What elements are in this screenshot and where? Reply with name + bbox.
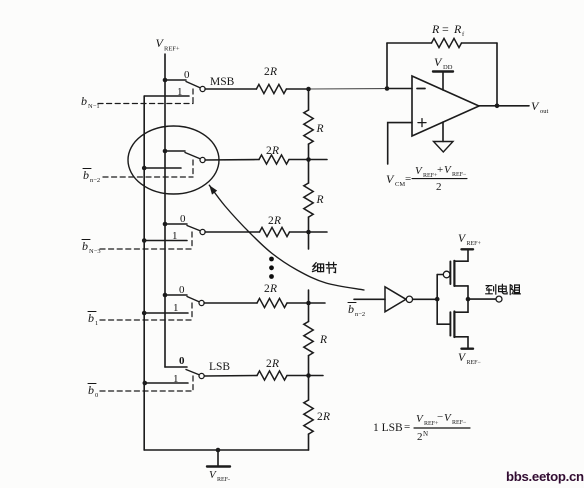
switch S4 MSB <box>144 78 205 96</box>
ground VREF- symbol <box>207 450 230 467</box>
svg-text:R: R <box>316 194 324 206</box>
ladder vertical R between node4-node5 <box>308 303 310 322</box>
junction opamp output <box>495 104 500 109</box>
wire LSB stub <box>309 375 324 377</box>
svg-text:REF-: REF- <box>217 477 230 483</box>
svg-text:R: R <box>271 358 279 370</box>
junction cmos output <box>466 297 471 302</box>
svg-text:b: b <box>83 168 89 182</box>
svg-text:1: 1 <box>177 86 183 98</box>
svg-text:V: V <box>416 413 424 425</box>
svg-text:V: V <box>209 469 217 481</box>
svg-text:REF−: REF− <box>452 420 467 426</box>
svg-text:2: 2 <box>417 431 423 443</box>
ladder vertical R between node1-node2 <box>308 89 310 110</box>
wire cmos output <box>468 298 496 300</box>
resistor 2R (row2) <box>259 155 289 164</box>
resistor 2R (MSB) <box>256 84 286 93</box>
wire LSB to ladder <box>287 375 309 377</box>
switch S1 <box>142 293 204 316</box>
wire dashed control b(N-3) <box>100 232 192 249</box>
wire opamp plus input <box>388 123 412 164</box>
svg-text:N−3: N−3 <box>89 248 101 255</box>
svg-text:R: R <box>269 66 277 78</box>
node VCM formula <box>386 164 467 193</box>
wire row3 stub <box>309 231 328 233</box>
junction opamp minus input <box>385 86 390 91</box>
wire row2 stub <box>309 159 328 161</box>
switch S3 (circled detail) <box>142 149 205 171</box>
svg-text:out: out <box>540 108 549 115</box>
svg-text:n−2: n−2 <box>355 311 365 318</box>
resistor 2R (LSB) <box>257 371 287 380</box>
svg-text:R: R <box>273 215 281 227</box>
svg-text:n−2: n−2 <box>90 177 100 184</box>
svg-text:0: 0 <box>95 392 98 399</box>
label to-resistor (dao dian zu) <box>486 284 521 294</box>
svg-text:V: V <box>415 165 423 177</box>
resistor R=Rf feedback <box>432 38 462 47</box>
inverter X1 <box>385 287 413 312</box>
ellipsis dots <box>269 257 274 279</box>
svg-text:V: V <box>531 99 540 113</box>
svg-text:1: 1 <box>173 302 179 314</box>
node Vout label <box>531 99 549 115</box>
transistor M1 PMOS <box>437 249 468 299</box>
node b1bar label <box>88 311 98 327</box>
svg-text:REF−: REF− <box>467 360 482 366</box>
wire feedback left vertical <box>386 43 388 89</box>
svg-text:b: b <box>88 383 94 397</box>
svg-text:1: 1 <box>173 373 179 385</box>
svg-text:b: b <box>82 239 88 253</box>
svg-text:0: 0 <box>180 213 186 225</box>
node b(n-2)bar label <box>83 168 100 184</box>
wire dashed control b(n-2) <box>103 160 193 177</box>
transistor M2 NMOS <box>437 299 468 349</box>
wire left rail (to VREF-) <box>143 96 145 450</box>
svg-text:+: + <box>437 164 443 176</box>
wire dashed control b0 <box>100 376 193 391</box>
power VREF+ (pmos) <box>462 248 474 250</box>
svg-text:V: V <box>444 164 452 176</box>
wire MSB node to opamp <box>286 88 308 90</box>
svg-text:REF+: REF+ <box>467 241 482 247</box>
wire row3 to 2R <box>205 231 260 233</box>
junction bottom rail <box>216 448 221 453</box>
node b(N-3)bar label <box>82 239 101 255</box>
svg-text:0: 0 <box>179 355 185 367</box>
wire ladder above node4 <box>308 290 310 303</box>
power VREF- (nmos) <box>462 348 474 350</box>
svg-text:R: R <box>431 22 440 36</box>
svg-text:2: 2 <box>436 181 442 193</box>
wire VREF+ vertical rail <box>164 54 166 367</box>
svg-text:REF+: REF+ <box>164 46 180 53</box>
svg-text:1: 1 <box>172 230 178 242</box>
node VREF+ rail label <box>156 36 180 53</box>
svg-text:=: = <box>405 173 411 185</box>
arrow curved (detail callout) <box>209 185 364 290</box>
junction gate node <box>435 297 440 302</box>
svg-text:V: V <box>444 412 452 424</box>
node bN-1 label <box>81 94 100 110</box>
terminal open circle output <box>496 296 502 302</box>
wire feedback top right <box>462 42 498 44</box>
wire LSB to 2R <box>205 375 258 378</box>
junction ladder node 4 <box>306 301 311 306</box>
svg-text:b: b <box>348 302 354 316</box>
wire gate vertical <box>436 275 438 325</box>
node VREF- label <box>209 469 230 483</box>
node b0bar label <box>88 383 98 399</box>
svg-text:b: b <box>81 94 87 108</box>
wire dashed control b(N-1) <box>98 89 193 104</box>
resistor 2R (row4) <box>257 298 287 307</box>
wire row4 to ladder <box>287 302 309 304</box>
wire ladder below node3 (break) <box>308 232 310 249</box>
junction ladder node 3 <box>306 230 311 235</box>
svg-text:R: R <box>322 411 330 423</box>
svg-text:CM: CM <box>395 181 405 188</box>
svg-text:V: V <box>386 172 395 186</box>
wire MSB to 2R <box>205 88 256 90</box>
switch S2 <box>142 222 205 243</box>
junction ladder node 1 <box>306 87 311 92</box>
switch S0 LSB <box>143 367 205 385</box>
highlight ellipse around switch S3 <box>128 126 219 194</box>
junction ladder node 2 <box>306 157 311 162</box>
wire bottom rail <box>144 449 308 451</box>
svg-text:0: 0 <box>184 69 190 81</box>
svg-text:1 LSB: 1 LSB <box>373 422 403 434</box>
svg-text:0: 0 <box>179 284 185 296</box>
svg-text:f: f <box>462 31 465 38</box>
svg-text:=: = <box>442 22 449 36</box>
svg-text:DD: DD <box>443 64 453 71</box>
svg-text:N: N <box>423 430 428 438</box>
wire inverter input <box>354 298 385 300</box>
svg-text:LSB: LSB <box>209 361 230 373</box>
wire row4 to 2R <box>204 302 257 304</box>
wire dashed control b1 <box>100 303 192 320</box>
svg-text:N−1: N−1 <box>88 103 100 110</box>
svg-text:b: b <box>88 311 94 325</box>
wire row2 to 2R <box>205 159 259 162</box>
wire row3 to ladder <box>290 231 309 233</box>
power VDD <box>433 72 453 91</box>
svg-text:REF−: REF− <box>452 172 467 178</box>
wire row2 to ladder <box>289 159 309 161</box>
wire feedback top left <box>387 42 432 44</box>
resistor 2R (row3) <box>260 227 290 236</box>
junction ladder node 5 <box>306 373 311 378</box>
svg-text:R: R <box>316 123 324 135</box>
svg-text:−: − <box>437 411 443 423</box>
svg-text:V: V <box>434 55 443 69</box>
wire inverter output to gates <box>413 298 438 300</box>
svg-text:R: R <box>271 145 279 157</box>
svg-text:MSB: MSB <box>210 76 235 88</box>
svg-text:=: = <box>404 421 410 433</box>
op-amp U1 <box>412 76 479 136</box>
ladder vertical R between node2-node3 <box>308 160 310 184</box>
node b(n-2)bar input label <box>348 302 365 318</box>
wire row4 stub <box>309 302 326 304</box>
wire opamp output <box>479 105 529 107</box>
label detail (xi jie) <box>312 262 336 273</box>
ladder vertical 2R terminator <box>308 376 310 401</box>
svg-text:R: R <box>453 22 462 36</box>
svg-text:R: R <box>269 283 277 295</box>
svg-text:R: R <box>319 334 327 346</box>
ground below op-amp <box>434 122 454 152</box>
formula 1 LSB <box>373 411 470 443</box>
wire feedback right vertical <box>496 43 498 106</box>
svg-text:bbs.eetop.cn: bbs.eetop.cn <box>506 469 584 484</box>
svg-text:1: 1 <box>95 320 98 327</box>
